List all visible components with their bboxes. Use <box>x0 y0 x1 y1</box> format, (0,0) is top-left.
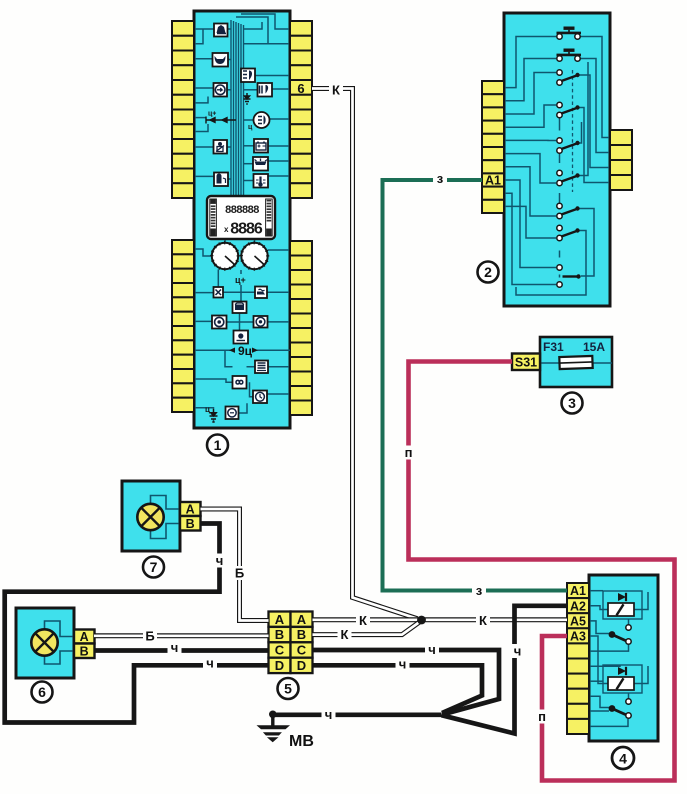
svg-text:8886: 8886 <box>230 221 263 238</box>
U1 LCD display <box>207 196 275 239</box>
wire Б (white): lamp 7 pin A to connector X5 pin A <box>201 509 269 621</box>
wire: relay block internal connections <box>589 591 648 727</box>
svg-text:ч: ч <box>216 553 224 568</box>
component callout 6 <box>32 682 53 703</box>
U1 indicator icon: low washer fluid <box>233 302 247 314</box>
switch contact S2.5 <box>557 138 580 153</box>
U1 gauge (right) <box>240 241 270 271</box>
svg-text:2: 2 <box>484 264 492 280</box>
wire label К (X5 B to junction) <box>338 627 352 642</box>
wire label К (cluster pin 6) <box>329 83 343 98</box>
wire label ч (relay A2 wire) <box>511 644 525 659</box>
svg-text:A5: A5 <box>570 614 586 628</box>
svg-text:C: C <box>275 643 285 658</box>
lamp 7 body <box>122 481 180 551</box>
svg-text:5: 5 <box>284 681 292 697</box>
svg-text:9ц: 9ц <box>238 344 253 358</box>
U1 indicator: high beam telltale (round) <box>254 112 270 128</box>
svg-text:A: A <box>297 612 307 627</box>
wire label з (bottom) <box>472 583 486 598</box>
lamp 6 bulb <box>31 629 57 655</box>
relay K1 contact <box>609 625 632 644</box>
lamp 7 bulb <box>137 504 163 530</box>
U1 left connector pins lower group <box>172 240 194 412</box>
svg-text:B: B <box>275 627 284 642</box>
switch contact S2.8 <box>557 225 580 240</box>
U1 indicator icon: seat belt <box>214 140 228 154</box>
svg-text:ч: ч <box>399 657 407 672</box>
svg-text:A3: A3 <box>570 630 586 644</box>
switch contact S2.3 <box>557 70 580 85</box>
S2 left connector pins (10) <box>482 81 504 213</box>
svg-text:МВ: МВ <box>289 733 314 750</box>
switch block (component 2) body <box>504 13 610 306</box>
svg-text:4: 4 <box>619 751 627 767</box>
wire Б (white): lamp 6 pin A to connector X5 pin B <box>94 633 269 638</box>
switch contact S2.7 <box>557 203 580 218</box>
svg-text:ч: ч <box>171 640 179 655</box>
wire ч (black): connector X5 pin D to ground merge <box>313 665 483 713</box>
switch contact S2.4 <box>557 102 580 117</box>
wire label Б (lamp 7 wire) <box>233 566 247 581</box>
junction node K (splice) <box>417 616 426 625</box>
lamp 7 pin A <box>180 502 201 517</box>
wire label п (upper) <box>402 445 416 460</box>
U1 indicator icon: fuel level <box>214 173 228 187</box>
wire: fuse internal line <box>540 362 612 364</box>
U1 indicator icon: lamp out <box>255 361 268 374</box>
svg-text:ч: ч <box>325 707 333 722</box>
relay K2 coil and snubber diode <box>603 665 642 693</box>
wire label Б (lamp 6 wire) <box>143 629 157 644</box>
U1 right connector pins lower group <box>290 241 312 415</box>
fuse F31 value labels <box>543 340 605 354</box>
U1 right connector pins upper group <box>290 21 312 198</box>
svg-text:К: К <box>341 627 349 642</box>
wire label К (X5 A to junction) <box>356 613 370 628</box>
ground MB symbol <box>257 711 291 743</box>
svg-text:15A: 15A <box>583 340 605 354</box>
U1 indicator icon: seat heater <box>255 287 267 299</box>
wire ч (black): connector X5 pin C to ground merge <box>313 650 500 714</box>
component callout 3 <box>562 393 583 414</box>
U1 internal node marker 9ц <box>228 344 290 358</box>
U1 connector arrow row <box>206 111 253 132</box>
relay K1 coil and snubber diode <box>603 591 642 619</box>
U1 indicator icon: speaker <box>254 316 268 328</box>
svg-text:C: C <box>297 643 307 658</box>
wire ч (black): ground merge to ground MB <box>273 712 442 717</box>
wire К (white): cluster pin 6 down to junction node <box>312 89 418 619</box>
component callout 7 <box>143 557 164 578</box>
fuse block (component 3) body <box>540 337 612 387</box>
svg-text:7: 7 <box>150 559 158 575</box>
svg-text:К: К <box>359 613 367 628</box>
switch contact S2.9 (bottom) <box>557 265 581 287</box>
svg-text:з: з <box>476 583 483 598</box>
U1 indicator icon: tyre pressure <box>212 316 227 329</box>
svg-text:x: x <box>224 225 229 234</box>
lamp 7 pin B <box>180 516 201 531</box>
junction box S31 <box>512 354 540 371</box>
lamp 6 pin A <box>74 630 95 645</box>
U1 indicator icon: odometer reset <box>226 407 239 420</box>
wire К (white): connector X5 pin B to junction node <box>313 622 420 635</box>
wire: cluster internal connections upper <box>194 14 290 181</box>
wire label ч (ground wire) <box>322 707 336 722</box>
U1 indicator icon: brake fluid <box>214 24 228 37</box>
wire К (white): connector X5 pin A to relay block pin A5 through junction <box>313 617 568 622</box>
svg-text:A2: A2 <box>570 599 586 613</box>
wire label ч (lamp 6 wire) <box>168 640 182 655</box>
wire ч (black): relay block pin A2 to ground merge <box>442 606 568 734</box>
svg-text:3: 3 <box>568 395 576 411</box>
U1 indicator icon: choke <box>213 53 229 67</box>
svg-text:ц+: ц+ <box>208 111 216 118</box>
svg-text:B: B <box>186 517 195 531</box>
svg-text:B: B <box>80 645 89 659</box>
svg-text:A: A <box>186 503 195 517</box>
wire ч (black): lamp 6 pin B to connector X5 pin C <box>94 648 269 653</box>
wire label ч (lamp 7 wire) <box>213 553 227 568</box>
svg-text:з: з <box>437 171 444 186</box>
svg-text:Б: Б <box>145 629 154 644</box>
svg-text:D: D <box>275 658 284 673</box>
svg-text:ц: ц <box>248 124 253 131</box>
svg-text:A1: A1 <box>485 174 501 188</box>
wire: cluster internal bus lines <box>231 20 244 196</box>
svg-text:F31: F31 <box>543 340 564 354</box>
component callout 5 <box>278 678 299 699</box>
svg-text:ц: ц <box>205 405 210 414</box>
svg-text:D: D <box>297 658 306 673</box>
svg-text:888888: 888888 <box>225 204 259 216</box>
U1 indicator icon: battery charge <box>254 139 268 153</box>
wire label К (junction to relay A5) <box>476 613 490 628</box>
U1 gauge (left) <box>210 241 240 271</box>
svg-text:6: 6 <box>38 684 46 700</box>
switch S2 mechanical link (dashed) <box>572 70 574 192</box>
svg-text:1: 1 <box>214 437 222 453</box>
U1 internal ground symbol (lower) <box>205 405 218 422</box>
svg-text:ч: ч <box>206 656 214 671</box>
instrument cluster (component 1) body <box>194 11 290 428</box>
svg-text:п: п <box>405 445 413 460</box>
svg-text:ч: ч <box>428 642 436 657</box>
svg-text:Б: Б <box>235 566 244 581</box>
wire: cluster internal connections lower <box>194 239 290 422</box>
U1 left connector pins upper group <box>172 21 194 198</box>
switch contact S2.6 <box>557 170 580 185</box>
lamp 6 body <box>16 608 74 678</box>
svg-text:B: B <box>297 627 306 642</box>
U1 indicator icon: headlamp low beam <box>241 69 255 83</box>
svg-text:A: A <box>80 630 89 644</box>
lamp 7 bulb leads <box>151 496 181 539</box>
fuse F31 element <box>559 356 592 369</box>
svg-text:К: К <box>332 83 340 98</box>
relay block (component 4) body <box>589 575 658 741</box>
U1 indicator icon: oil pressure <box>253 157 268 171</box>
wire: switch block internal connections <box>504 37 610 296</box>
lamp 6 bulb leads <box>45 621 75 664</box>
push-button switch S2.2 <box>557 49 582 62</box>
svg-text:К: К <box>479 613 487 628</box>
wire label ч (X5 D wire) <box>396 657 410 672</box>
wire label з (top) <box>433 171 447 186</box>
wire label п (lower) <box>535 709 549 724</box>
U1 indicator icon: turn indicator <box>214 83 228 97</box>
U1 indicator icon: infinity <box>233 376 247 389</box>
U1 indicator icon: clock <box>253 391 267 404</box>
svg-text:ч: ч <box>514 644 522 659</box>
U1 indicator icon: door ajar <box>234 331 249 344</box>
lamp 6 pin B <box>74 644 95 659</box>
wire з (green): switch block pin A1 to relay block pin A1 <box>383 180 568 591</box>
U1 indicator icon: coolant temp <box>254 174 269 188</box>
S2 right connector pins (4) <box>610 130 632 190</box>
svg-text:A1: A1 <box>570 584 586 598</box>
svg-text:6: 6 <box>297 81 304 96</box>
U1 internal ground symbol (upper) <box>244 93 251 104</box>
U1 indicator icon: rear fog lamp <box>258 83 273 97</box>
wire label ч (loop wire to X5 D) <box>203 656 217 671</box>
wire п (red): junction box S31 to relay block pin A3 <box>409 362 675 781</box>
svg-text:ц+: ц+ <box>235 275 246 285</box>
component callout 1 <box>207 435 228 456</box>
relay K2 contact <box>609 699 632 718</box>
connector block (component 5) <box>269 612 313 674</box>
component callout 4 <box>612 747 634 769</box>
svg-text:п: п <box>538 709 546 724</box>
push-button switch S2.1 <box>557 27 582 40</box>
svg-text:S31: S31 <box>515 356 537 370</box>
component callout 2 <box>478 262 499 283</box>
wire ч (black): lamp 7 pin B loop to connector X5 pin D <box>5 524 269 723</box>
K4 left connector pins (10) <box>567 583 589 734</box>
wire label ч (X5 C wire) <box>425 642 439 657</box>
U1 indicator icon: service wrench <box>214 287 224 298</box>
svg-text:A: A <box>275 612 285 627</box>
